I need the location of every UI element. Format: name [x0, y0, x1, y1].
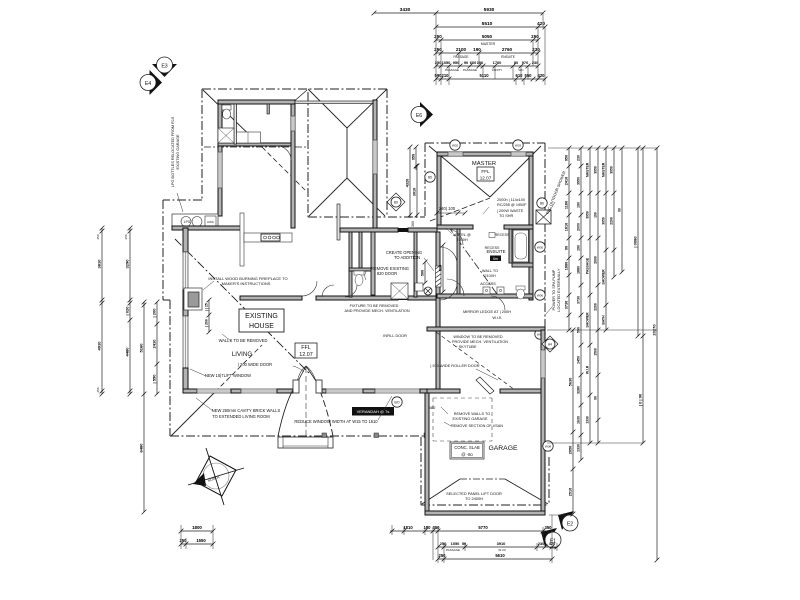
svg-text:TO ADDITION: TO ADDITION	[394, 255, 420, 260]
svg-text:1050: 1050	[442, 60, 451, 65]
veranda east edge	[427, 393, 429, 437]
roof garage ridge	[460, 478, 505, 480]
svg-text:2410: 2410	[564, 177, 568, 185]
roof eave west nook	[162, 200, 164, 300]
svg-text:W.I.R: W.I.R	[585, 365, 589, 374]
svg-text:90: 90	[564, 246, 568, 250]
wc fixture	[354, 271, 364, 275]
svg-text:ENSUITE: ENSUITE	[501, 55, 515, 59]
veranda posts	[322, 433, 327, 438]
svg-text:REDUCE WINDOW WIDTH AT W15 TO: REDUCE WINDOW WIDTH AT W15 TO 1610	[294, 419, 378, 424]
svg-text:3810: 3810	[96, 259, 101, 269]
svg-text:4320: 4320	[405, 179, 409, 187]
svg-text:PASSAGE: PASSAGE	[446, 548, 460, 552]
svg-text:LOCATED EXTERNALLY: LOCATED EXTERNALLY	[557, 268, 561, 312]
wall laundry top	[218, 100, 295, 104]
svg-text:2200: 2200	[609, 217, 613, 225]
svg-text:E3: E3	[161, 64, 167, 70]
wall garage east	[541, 330, 545, 515]
svg-text:3290: 3290	[124, 259, 129, 269]
svg-text:HWS: HWS	[207, 220, 214, 224]
dashed old garage	[433, 397, 492, 399]
conc slab box	[450, 442, 484, 459]
roof eave west lower	[169, 300, 171, 436]
svg-text:1800: 1800	[192, 525, 202, 530]
roof hip dining SW	[309, 178, 347, 216]
svg-text:LPG BOTTLES RELOCATED FROM R19: LPG BOTTLES RELOCATED FROM R19	[171, 117, 175, 187]
floor waste	[424, 287, 432, 295]
svg-text:NEW 250mm CAVITY BRICK WALLS: NEW 250mm CAVITY BRICK WALLS	[212, 408, 281, 413]
wall int v1	[349, 232, 352, 297]
svg-text:250: 250	[96, 234, 100, 239]
svg-text:360: 360	[411, 221, 415, 227]
roof valley laundry	[262, 147, 305, 190]
svg-text:1810: 1810	[564, 223, 568, 231]
marker W07	[535, 329, 545, 339]
svg-text:600: 600	[470, 60, 477, 65]
wall living west	[183, 228, 188, 252]
svg-text:MAKER'S INSTRUCTIONS: MAKER'S INSTRUCTIONS	[222, 281, 271, 286]
svg-text:4910: 4910	[96, 341, 101, 351]
porch splay left	[278, 384, 297, 436]
marker W08	[543, 441, 553, 451]
dining shelf	[337, 204, 340, 240]
shower existing bath	[391, 283, 408, 299]
wc laundry	[222, 105, 231, 110]
svg-text:1880: 1880	[564, 262, 568, 270]
svg-text:WALL TO: WALL TO	[482, 269, 498, 273]
svg-text:EXISTING: EXISTING	[245, 313, 278, 320]
svg-text:W08: W08	[545, 445, 552, 449]
svg-text:W05: W05	[537, 246, 544, 250]
marker B5	[425, 172, 435, 182]
wall dining east	[373, 100, 377, 228]
svg-text:W03: W03	[515, 144, 522, 148]
window laundry west	[218, 152, 222, 188]
svg-text:250: 250	[124, 234, 128, 239]
svg-text:B5: B5	[428, 176, 432, 180]
wall bedrooms top	[340, 228, 398, 232]
marker E2	[558, 511, 574, 530]
svg-text:REMOVE WALLS TO: REMOVE WALLS TO	[454, 412, 490, 416]
roof valley master SW	[430, 198, 490, 221]
roof eave dining west	[307, 92, 309, 217]
svg-text:1180: 1180	[564, 201, 568, 209]
svg-text:W06: W06	[537, 294, 544, 298]
wall link bottom	[427, 327, 545, 331]
svg-text:800: 800	[438, 265, 442, 271]
svg-text:| | 25: | | 25	[204, 303, 208, 311]
svg-text:MASTER: MASTER	[481, 42, 496, 46]
svg-text:| 020: | 020	[124, 306, 129, 316]
svg-text:EXISTING GARAGE: EXISTING GARAGE	[176, 134, 180, 169]
svg-text:20270: 20270	[651, 324, 656, 336]
svg-text:3280: 3280	[576, 386, 580, 394]
svg-text:SHOWER: SHOWER	[585, 312, 589, 328]
roof valley long	[175, 239, 310, 374]
svg-text:1450: 1450	[576, 356, 580, 364]
wall nook south	[172, 226, 242, 230]
svg-text:1550: 1550	[196, 538, 206, 543]
svg-text:5930: 5930	[484, 7, 495, 13]
marker W05	[535, 242, 545, 252]
svg-text:3950: 3950	[585, 211, 589, 219]
svg-text:WALLS TO BE REMOVED: WALLS TO BE REMOVED	[219, 338, 268, 343]
marker E1	[541, 528, 557, 547]
svg-text:820 DOOR: 820 DOOR	[377, 271, 397, 276]
wall wc h	[349, 268, 371, 271]
svg-text:5510: 5510	[482, 21, 493, 27]
svg-text:950: 950	[411, 154, 415, 160]
svg-text:80: 80	[514, 60, 518, 65]
svg-text:SHOWER: SHOWER	[601, 269, 605, 285]
svg-text:190: 190	[473, 47, 481, 52]
wall int v2	[359, 232, 362, 268]
svg-text:W.I.K: W.I.K	[492, 315, 502, 320]
svg-text:3950: 3950	[601, 217, 605, 225]
roof eave laundry south	[204, 146, 306, 148]
svg-text:90: 90	[617, 208, 621, 212]
svg-text:2410: 2410	[151, 339, 156, 349]
svg-text:FFL: FFL	[301, 345, 311, 351]
roof master east eave	[544, 143, 546, 457]
roof eave jog2	[163, 299, 170, 301]
bottom-center dims	[390, 530, 552, 532]
svg-text:TO SHR: TO SHR	[499, 214, 514, 218]
svg-text:5770: 5770	[478, 525, 488, 530]
window dining east	[373, 140, 377, 174]
svg-text:610: 610	[516, 73, 524, 78]
roof garage south eave	[421, 504, 549, 506]
roof eave addition west	[424, 143, 426, 217]
svg-text:W02: W02	[452, 144, 459, 148]
wall laundry interior	[234, 104, 237, 144]
roof garage west eave	[420, 437, 422, 505]
roof eave north	[202, 88, 387, 90]
svg-text:@ -8o: @ -8o	[461, 452, 473, 457]
svg-text:ACCESS: ACCESS	[480, 282, 496, 286]
svg-text:230: 230	[538, 541, 545, 546]
svg-text:MASTER: MASTER	[585, 162, 589, 177]
svg-text:950: 950	[453, 60, 460, 65]
roof hip master NW	[429, 146, 490, 197]
laundry bench	[237, 132, 261, 143]
nook LPG box	[172, 214, 218, 229]
svg-text:2000: 2000	[593, 256, 597, 264]
svg-text:970: 970	[522, 60, 529, 65]
bottom-left dims	[181, 530, 213, 532]
svg-text:950: 950	[564, 155, 568, 161]
svg-text:PASSAGE: PASSAGE	[454, 55, 469, 59]
wall garage south	[425, 511, 545, 515]
svg-text:LPG: LPG	[184, 220, 191, 224]
svg-text:250: 250	[439, 553, 447, 558]
svg-text:NEW 15|7L/FT WINDOW: NEW 15|7L/FT WINDOW	[205, 373, 251, 378]
svg-text:E4: E4	[145, 81, 151, 87]
existing house box	[239, 309, 284, 332]
roof eave jog	[163, 199, 202, 201]
svg-text:580: 580	[429, 405, 436, 410]
svg-text:PASSAGE: PASSAGE	[445, 68, 459, 72]
svg-text:190: 190	[576, 245, 580, 251]
svg-text:RECESS: RECESS	[495, 233, 510, 237]
svg-text:3950: 3950	[576, 177, 580, 185]
roof ridge dining	[346, 128, 348, 178]
porch step	[278, 437, 333, 448]
svg-text:12.07: 12.07	[480, 176, 492, 181]
svg-text:250: 250	[434, 34, 442, 39]
svg-text:420: 420	[538, 73, 546, 78]
svg-text:210: 210	[442, 73, 450, 78]
svg-text:190: 190	[477, 60, 484, 65]
svg-text:MIRROR LEDGE AT | 200H: MIRROR LEDGE AT | 200H	[463, 309, 511, 314]
marker B9 diamond	[387, 193, 405, 211]
svg-text:LINTEL @: LINTEL @	[453, 233, 471, 237]
porch jambs	[293, 380, 299, 393]
svg-text:500: 500	[420, 270, 424, 276]
roof hip SW dashed cont	[215, 345, 262, 392]
wall kitchen east	[291, 104, 295, 228]
marker B6	[537, 198, 547, 208]
svg-text:RECESS: RECESS	[485, 246, 500, 250]
svg-text:| 570 WIDE ROLLER DOOR: | 570 WIDE ROLLER DOOR	[430, 363, 479, 368]
wall living south	[183, 389, 197, 393]
wall master east	[529, 156, 533, 300]
svg-text:| 0080: | 0080	[632, 236, 637, 248]
svg-text:3430: 3430	[400, 7, 411, 13]
FFL box master	[477, 167, 494, 181]
svg-text:1050: 1050	[451, 541, 460, 546]
door arcs addition	[447, 229, 463, 245]
roof eave south	[170, 435, 428, 437]
svg-text:1700: 1700	[493, 60, 502, 65]
svg-text:1880: 1880	[576, 266, 580, 274]
svg-text:W.I.R: W.I.R	[498, 548, 506, 552]
svg-text:6m: 6m	[493, 257, 498, 261]
hatch create opening	[436, 266, 442, 287]
svg-text:180: 180	[424, 525, 432, 530]
marker W02	[450, 140, 460, 150]
svg-text:12.07: 12.07	[299, 352, 313, 358]
svg-text:250: 250	[96, 387, 100, 392]
roof valley top	[291, 90, 307, 104]
roller door diagonal	[476, 377, 494, 394]
svg-text:WINDOW TO BE REMOVED: WINDOW TO BE REMOVED	[453, 335, 502, 339]
wall master top	[437, 152, 533, 156]
svg-text:EXISTING GARAGE: EXISTING GARAGE	[452, 417, 487, 421]
svg-text:| 0 | 90: | 0 | 90	[637, 393, 642, 406]
roof eave west upper	[201, 89, 203, 200]
svg-text:3730: 3730	[576, 296, 580, 304]
svg-text:FFL: FFL	[481, 169, 490, 174]
left dims	[101, 228, 103, 394]
svg-text:5110: 5110	[479, 73, 489, 78]
roof valley link	[448, 226, 497, 294]
marker E3	[152, 64, 177, 77]
marker A4 diamond	[542, 336, 558, 352]
svg-text:3910: 3910	[497, 541, 506, 546]
svg-text:190: 190	[576, 202, 580, 208]
svg-text:CONC. SLAB: CONC. SLAB	[454, 445, 480, 450]
wall south right of porch	[322, 389, 326, 393]
marker B0	[392, 397, 402, 407]
porch door leaves	[297, 366, 306, 383]
wall garage top partial	[427, 389, 460, 393]
svg-text:VERANDAH @ 7s: VERANDAH @ 7s	[357, 409, 390, 414]
kitchen bench	[240, 213, 244, 266]
marker E6	[420, 102, 433, 127]
svg-text:PASSAGE: PASSAGE	[463, 68, 477, 72]
svg-text:6480: 6480	[138, 443, 143, 453]
svg-text:1330: 1330	[585, 416, 589, 424]
svg-text:5160: 5160	[138, 343, 143, 353]
svg-text:RC/255 @ 1900F: RC/255 @ 1900F	[497, 203, 527, 207]
bath tub	[513, 230, 529, 262]
roof hip dining SE	[347, 178, 385, 216]
door arc laundry	[277, 146, 291, 160]
svg-text:230: 230	[576, 155, 580, 161]
wall passage main	[240, 296, 302, 300]
marker W03	[513, 140, 523, 150]
svg-text:3010: 3010	[412, 188, 416, 196]
svg-text:3950: 3950	[593, 166, 597, 174]
svg-text:4480: 4480	[124, 347, 129, 357]
svg-text:| 200: | 200	[204, 319, 208, 327]
roof eave dining east	[386, 89, 388, 217]
wall int v3	[414, 232, 417, 297]
svg-text:MASTER: MASTER	[601, 162, 605, 177]
roof hip laundry NW	[203, 90, 262, 147]
svg-text:WC: WC	[519, 68, 525, 72]
right dims	[548, 147, 657, 149]
svg-text:90: 90	[464, 60, 468, 65]
roof hip dining NE	[347, 89, 387, 128]
svg-text:420: 420	[537, 21, 545, 27]
svg-text:350: 350	[545, 525, 553, 530]
outdoor shower	[536, 210, 551, 224]
svg-text:A4: A4	[548, 343, 552, 347]
svg-text:PROVIDE MECH. VENTILATION: PROVIDE MECH. VENTILATION	[452, 340, 508, 344]
basins ensuite	[483, 287, 490, 294]
svg-text:2510: 2510	[568, 488, 572, 496]
wall bath south	[512, 263, 533, 267]
FFL box existing	[295, 343, 317, 358]
window kitchen east	[291, 116, 295, 131]
svg-text:1330: 1330	[576, 444, 580, 452]
svg-text:1810: 1810	[403, 525, 413, 530]
svg-text:590: 590	[576, 327, 580, 333]
small dims mid left	[208, 300, 210, 332]
svg-text:INFILL DOOR: INFILL DOOR	[383, 334, 407, 338]
svg-text:TO EXTENDED LIVING ROOM: TO EXTENDED LIVING ROOM	[212, 414, 270, 419]
dim 950/4320 near E6	[415, 147, 417, 170]
laundry tub x-box	[218, 128, 234, 143]
wall laundry bottom	[218, 143, 291, 146]
wall master west	[437, 156, 441, 228]
svg-text:250: 250	[440, 541, 447, 546]
svg-text:5050: 5050	[482, 34, 493, 39]
svg-text:| 200W WASTE: | 200W WASTE	[497, 209, 524, 213]
porch splay right	[317, 384, 333, 436]
wall laundry west	[218, 104, 222, 216]
svg-text:VANITY: VANITY	[492, 68, 503, 72]
svg-text:90: 90	[593, 396, 597, 400]
wall dining north	[295, 101, 373, 104]
wall int v4	[371, 232, 375, 295]
svg-text:2100: 2100	[456, 47, 467, 52]
svg-text:1630: 1630	[576, 416, 580, 424]
svg-text:| 200 WIDE DOOR: | 200 WIDE DOOR	[238, 362, 272, 367]
basin existing bath	[415, 283, 423, 291]
svg-text:| 200: | 200	[151, 308, 156, 318]
roof eave mid south	[308, 216, 425, 218]
svg-text:FIXTURE TO BE REMOVED: FIXTURE TO BE REMOVED	[350, 304, 399, 308]
top dim verticals	[435, 13, 437, 85]
wall bath west	[509, 229, 512, 263]
svg-text:5630: 5630	[568, 378, 572, 386]
fireplace	[184, 288, 202, 310]
roof garage hip SE	[505, 479, 548, 504]
svg-text:230: 230	[532, 47, 540, 52]
wall master bottom	[437, 225, 473, 229]
svg-text:2050: 2050	[568, 446, 572, 454]
svg-text:B9: B9	[394, 201, 398, 205]
garage east window	[541, 350, 545, 378]
svg-text:2000h | 114x100: 2000h | 114x100	[497, 198, 525, 202]
svg-text:HOUSE: HOUSE	[249, 323, 274, 330]
svg-text:2100H: 2100H	[484, 274, 495, 278]
svg-text:2200: 2200	[593, 303, 597, 311]
roof hip dining NW	[308, 89, 347, 128]
dim 800 vertical small	[442, 245, 444, 292]
north arrow	[196, 456, 236, 496]
verandah label	[352, 407, 394, 416]
svg-text:3950: 3950	[609, 166, 613, 174]
svg-text:5610: 5610	[495, 553, 505, 558]
wall garage west	[425, 393, 429, 515]
roof master top	[425, 142, 545, 144]
svg-text:GARAGE: GARAGE	[488, 445, 518, 452]
porch center line	[305, 367, 307, 448]
svg-text:E2: E2	[567, 522, 573, 528]
marker E4	[150, 70, 163, 95]
svg-text:2000: 2000	[576, 223, 580, 231]
dim 500 vertical small	[424, 262, 426, 283]
svg-text:TO 2400H: TO 2400H	[465, 496, 483, 501]
svg-text:2100H: 2100H	[456, 238, 467, 242]
door arcs existing	[302, 281, 317, 296]
marker W06	[535, 290, 545, 300]
svg-text:| 550: | 550	[151, 374, 156, 384]
svg-text:50: 50	[462, 541, 466, 546]
svg-text:1500: 1500	[593, 348, 597, 356]
roof garage east eave	[548, 457, 550, 505]
svg-text:POWER TO SPA PUMP: POWER TO SPA PUMP	[552, 269, 556, 310]
roof garage hip SW	[422, 479, 460, 504]
svg-text:BATH: BATH	[601, 315, 605, 325]
svg-text:350: 350	[433, 525, 441, 530]
svg-text:REMOVE SECTION OF VSAN: REMOVE SECTION OF VSAN	[451, 424, 503, 428]
svg-text:MASTER: MASTER	[472, 161, 496, 167]
svg-text:BO: BO	[394, 401, 399, 405]
wall east existing	[436, 232, 440, 392]
svg-text:B6: B6	[540, 202, 544, 206]
cooktop DB	[261, 234, 280, 241]
svg-text:190: 190	[593, 212, 597, 218]
svg-text:PASSAGE: PASSAGE	[585, 257, 589, 274]
wall ensuite west	[457, 229, 460, 295]
svg-text:LIVING: LIVING	[232, 351, 252, 358]
